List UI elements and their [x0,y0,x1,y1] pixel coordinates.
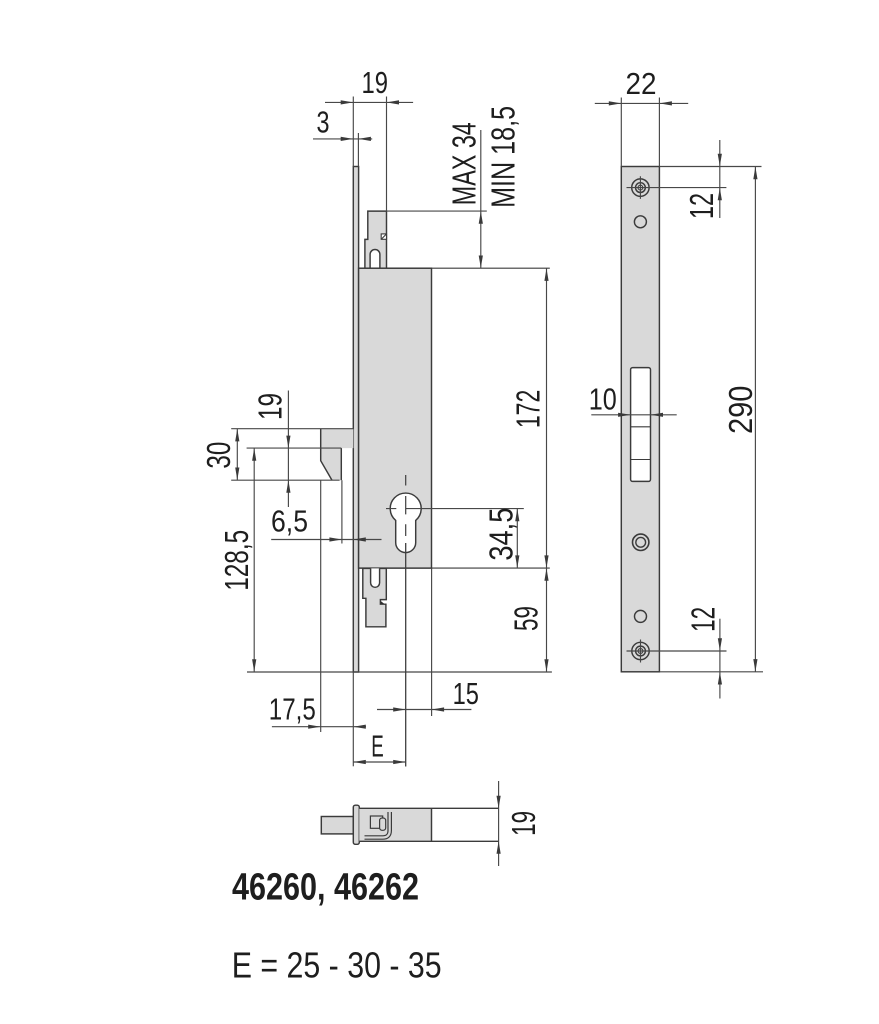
19 left dim line [287,391,289,508]
34,5 dim line [516,509,518,568]
body bottom edge extension [359,567,550,569]
ext line x=358.4 for dim 3 [357,133,359,167]
body right ext below [431,568,433,716]
svg-text:128,5: 128,5 [218,530,255,591]
59 arrows [544,568,548,581]
prong slot [370,250,380,269]
L-shaped deviator strip [365,812,390,838]
rounded tab detail [380,818,386,830]
ext line x=353.2 above plate [352,97,354,167]
svg-text:E = 25 - 30 - 35: E = 25 - 30 - 35 [232,944,442,985]
inner square detail [370,816,382,828]
prong top ext line [387,210,487,212]
svg-text:3: 3 [317,105,330,140]
bottom 12 dim line [719,619,721,699]
bottom 12 arrows [718,638,722,651]
10 dim line [591,414,676,416]
plate top ext line [659,166,761,168]
bottom screw crosshair [627,640,727,663]
290 dim line [754,167,756,672]
6,5 arrows [329,537,342,541]
faceplate edge strip (left view) [353,167,358,673]
upper latch prong [365,211,387,268]
top screw hole [632,179,649,196]
svg-text:12: 12 [683,193,720,219]
centre hole [633,534,649,550]
euro cylinder hole [390,493,421,553]
lower latch slot [371,568,380,587]
body top edge extension [359,267,550,269]
cylinder CL below [405,543,407,767]
cylinder CL dashes [405,475,407,536]
svg-text:34,5: 34,5 [483,508,520,561]
svg-text:59: 59 [508,606,545,631]
15 dim line [377,709,471,711]
svg-text:46260, 46262: 46260, 46262 [232,867,419,909]
34,5 arrows [515,509,519,522]
svg-text:30: 30 [200,442,237,469]
E dim line [353,761,405,763]
lower latch notch wedge [381,601,385,604]
top screw crosshair [627,176,727,199]
19 left arrows [286,436,290,449]
svg-text:290: 290 [722,386,759,435]
hook mid ext line [247,447,342,449]
15 arrows [393,707,406,711]
dim 19 top line [325,101,413,103]
172 + 59 dim line [546,268,548,672]
body section gray [359,808,431,841]
bottom reference line [247,671,552,673]
svg-text:12: 12 [685,607,722,632]
svg-text:19: 19 [362,65,389,100]
faceplate front [621,167,659,672]
22 dim line [595,102,688,104]
top plain hole [634,216,646,228]
svg-text:E: E [371,728,384,763]
hook outer ext below [320,480,322,732]
svg-text:19: 19 [252,393,289,420]
top 12 arrows [718,154,722,167]
svg-text:MAX 34: MAX 34 [446,122,483,205]
E arrows [353,760,366,764]
svg-text:19: 19 [505,811,542,836]
hook bottom ext line [231,479,339,481]
arrows left view [235,100,548,764]
plate outer ext below [352,672,354,766]
sec 19 dim line [498,781,500,866]
latch slot [631,368,651,482]
30 dim line [236,429,238,481]
prong notch [381,234,386,239]
deviator hook piece [321,429,354,481]
lower latch piece [363,568,387,626]
bottom screw hole [632,642,649,659]
latch bolt section [321,817,353,834]
svg-text:172: 172 [510,390,547,429]
30 arrows [235,429,239,442]
6,5 right ext [341,480,343,543]
lock body [359,268,432,568]
dim 3 arrows [341,137,354,141]
6,5 dim line [271,539,381,541]
top 12 dim line [719,140,721,218]
svg-text:17,5: 17,5 [269,692,316,727]
faceplate bar section [353,805,359,844]
svg-text:6,5: 6,5 [271,504,308,539]
plate bottom ext line [659,671,763,673]
17,5 arrows [308,725,321,729]
128,5 dim line [253,448,255,672]
290 arrows [753,167,757,180]
max/min divider + arrow line [480,130,482,268]
dim 19 top arrows [341,100,354,104]
ext line x=386.5 above prong [386,97,388,212]
svg-text:22: 22 [626,66,657,101]
172 arrows [544,268,548,281]
svg-text:10: 10 [589,382,617,417]
cylinder centre ext line [386,508,524,510]
128,5 arrows [252,448,256,461]
10 arrows [618,413,631,417]
svg-text:15: 15 [453,676,479,711]
bottom plain hole [635,610,647,622]
22 arrows [609,101,622,105]
hook top ext line [231,428,353,430]
22 ext lines [621,98,659,167]
max/min arrows [479,211,483,224]
dim 3 line [313,138,372,140]
svg-text:MIN 18,5: MIN 18,5 [485,106,522,208]
17,5 dim line [272,726,366,728]
